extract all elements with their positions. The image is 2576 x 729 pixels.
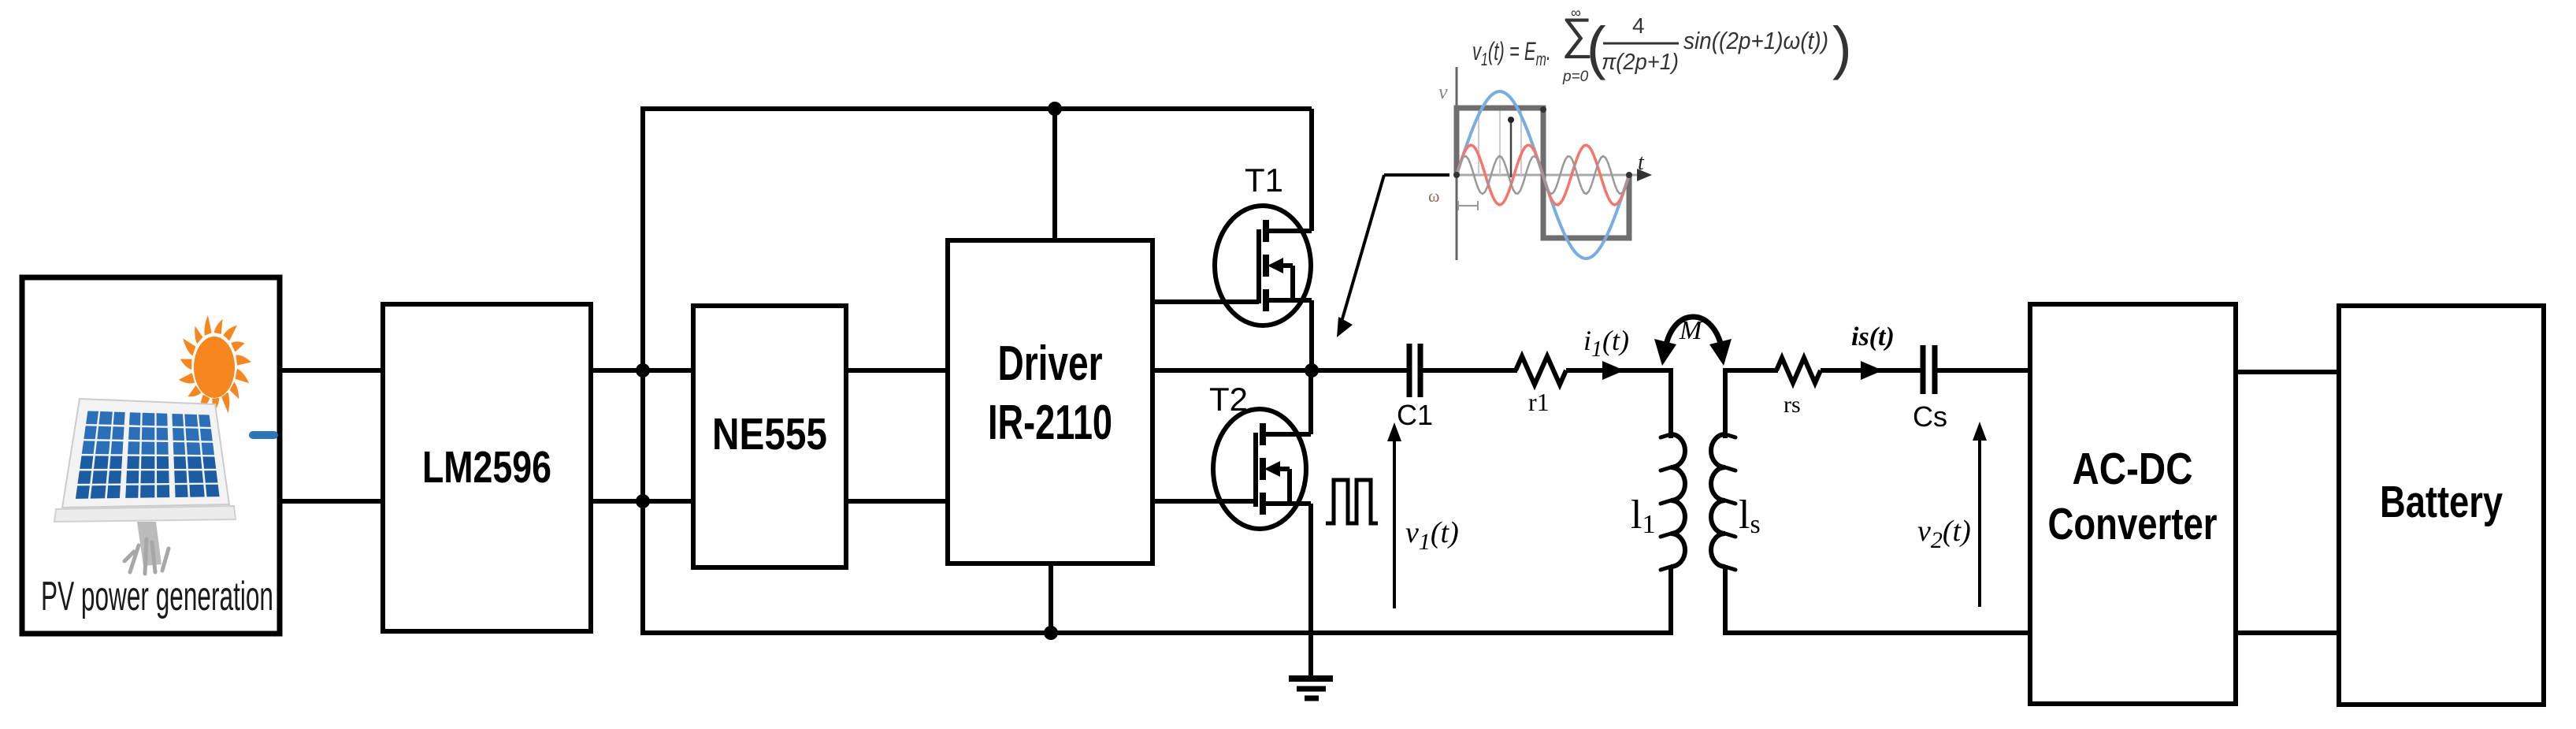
junction dot LM output lower bbox=[636, 494, 650, 508]
svg-text:i1(t): i1(t) bbox=[1583, 325, 1629, 362]
inductor l1 primary coil bbox=[1661, 434, 1685, 570]
svg-text:is(t): is(t) bbox=[1851, 322, 1895, 351]
wire left supply vertical rail bbox=[640, 106, 645, 635]
inset dimension tick bbox=[1458, 201, 1478, 210]
junction dot LM output upper bbox=[636, 363, 650, 378]
wire Driver to T1 gate bbox=[1153, 299, 1259, 304]
junction dot half-bridge node bbox=[1305, 363, 1319, 378]
svg-text:T1: T1 bbox=[1245, 162, 1283, 199]
solar panel pole bbox=[124, 522, 169, 574]
svg-text:ω: ω bbox=[1428, 186, 1439, 206]
svg-text:Battery: Battery bbox=[2380, 477, 2503, 527]
wire T1 source vertical bbox=[1309, 300, 1314, 370]
wire T2 drain vertical bbox=[1308, 370, 1313, 434]
wire primary coil top vertical bbox=[1668, 368, 1673, 438]
wire AC-DC to Battery lower bbox=[2236, 630, 2339, 635]
transistor T1 bbox=[1215, 206, 1312, 325]
square pulse symbol bbox=[1326, 480, 1378, 523]
svg-text:AC-DC: AC-DC bbox=[2073, 444, 2193, 494]
resistor r1 bbox=[1516, 356, 1566, 385]
wire LM2596 to NE555 upper bbox=[591, 368, 693, 373]
inset third harmonic red bbox=[1457, 145, 1629, 205]
inductor ls secondary coil bbox=[1711, 434, 1735, 570]
sun icon bbox=[179, 315, 251, 414]
junction dot top rail driver bbox=[1048, 102, 1062, 116]
resistor rs bbox=[1776, 358, 1821, 383]
inset fundamental sine blue bbox=[1457, 91, 1629, 258]
wire AC-DC to Battery upper bbox=[2236, 370, 2339, 374]
svg-text:LM2596: LM2596 bbox=[422, 442, 551, 493]
wire T1 drain vertical bbox=[1309, 109, 1314, 231]
wire secondary bottom rail bbox=[1723, 630, 2030, 635]
block LM2596 bbox=[383, 304, 591, 631]
block PV power generation box bbox=[22, 277, 280, 634]
svg-text:p=0: p=0 bbox=[1562, 69, 1589, 85]
transistor T2 bbox=[1213, 409, 1311, 529]
waveform inset axes bbox=[1457, 67, 1652, 260]
svg-text:r1: r1 bbox=[1528, 388, 1550, 416]
wire r1 to primary coil with current arrow i1 bbox=[1566, 368, 1671, 373]
wire secondary coil top vertical bbox=[1723, 368, 1728, 438]
junction dot bottom rail driver bbox=[1044, 626, 1058, 640]
wire top supply rail bbox=[640, 106, 1312, 111]
wire Driver to T2 gate bbox=[1153, 499, 1256, 504]
solar panel frame bbox=[62, 399, 229, 508]
wire Driver bottom return vertical bbox=[1049, 563, 1053, 635]
svg-text:IR-2110: IR-2110 bbox=[988, 396, 1112, 450]
wire NE555 to Driver upper bbox=[846, 368, 948, 373]
wire LM2596 to NE555 lower bbox=[591, 499, 693, 504]
wire bottom return rail bbox=[640, 630, 1671, 635]
blue dash marker bbox=[249, 431, 278, 439]
wire rs to Cs with current arrow is bbox=[1821, 368, 1923, 373]
leader arrow from waveform inset to output node bbox=[1337, 175, 1449, 337]
svg-text:sin((2p+1)ω(t)): sin((2p+1)ω(t)) bbox=[1683, 27, 1828, 54]
svg-text:t: t bbox=[1638, 151, 1645, 175]
solar panel tray bar bbox=[54, 506, 236, 522]
wire secondary top to rs bbox=[1723, 368, 1778, 373]
svg-text:v1(t): v1(t) bbox=[1405, 516, 1459, 555]
voltage arrow v2(t) bbox=[1973, 422, 1987, 607]
inset fifth harmonic gray bbox=[1457, 156, 1629, 194]
svg-text:M: M bbox=[1679, 316, 1703, 345]
capacitor C1 bbox=[1409, 344, 1420, 397]
svg-text:NE555: NE555 bbox=[712, 409, 827, 459]
block Driver IR-2110 bbox=[948, 240, 1153, 563]
svg-text:C1: C1 bbox=[1397, 399, 1433, 431]
svg-text:): ) bbox=[1832, 15, 1852, 80]
wire Cs to AC-DC converter bbox=[1936, 368, 2030, 373]
inset corner dots bbox=[1453, 172, 1460, 178]
wire secondary coil bottom vertical bbox=[1723, 566, 1728, 635]
wire Driver top supply vertical bbox=[1052, 109, 1057, 240]
formula v1(t) bbox=[1472, 5, 1852, 85]
wire PV to LM2596 lower bbox=[280, 499, 383, 504]
wire T2 source vertical to ground bbox=[1308, 504, 1313, 676]
svg-text:T2: T2 bbox=[1209, 381, 1248, 418]
mutual coupling M arc bbox=[1654, 317, 1732, 366]
wire C1 to r1 bbox=[1422, 368, 1517, 373]
svg-text:rs: rs bbox=[1784, 392, 1801, 418]
block Battery bbox=[2339, 306, 2544, 705]
ground bbox=[1289, 679, 1333, 698]
inset square wave bbox=[1457, 108, 1629, 238]
svg-text:Converter: Converter bbox=[2048, 499, 2218, 549]
wire primary coil bottom vertical bbox=[1668, 566, 1673, 635]
svg-text:Driver: Driver bbox=[998, 337, 1103, 391]
svg-text:π(2p+1): π(2p+1) bbox=[1602, 50, 1679, 75]
inset gridlines bbox=[1479, 108, 1521, 175]
wire NE555 to Driver lower bbox=[846, 499, 948, 504]
capacitor Cs bbox=[1923, 345, 1935, 394]
svg-text:Cs: Cs bbox=[1913, 400, 1947, 433]
solar panel cells bbox=[76, 411, 220, 499]
svg-text:∞: ∞ bbox=[1571, 5, 1581, 20]
svg-text:v2(t): v2(t) bbox=[1917, 515, 1971, 553]
block NE555 bbox=[693, 306, 846, 567]
svg-text:4: 4 bbox=[1632, 13, 1645, 38]
inset marker line bbox=[1508, 117, 1514, 177]
block AC-DC Converter bbox=[2030, 304, 2236, 704]
voltage arrow v1(t) bbox=[1387, 422, 1401, 608]
wire PV to LM2596 upper bbox=[280, 368, 383, 373]
svg-text:PV power generation: PV power generation bbox=[41, 574, 273, 619]
svg-text:v: v bbox=[1438, 80, 1448, 103]
wire half-bridge output node bbox=[1153, 368, 1408, 373]
